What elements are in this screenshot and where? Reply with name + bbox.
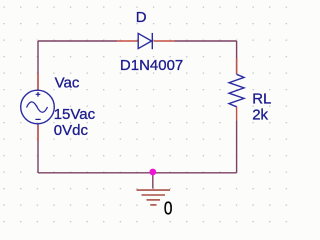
svg-text:D1N4007: D1N4007 [120,57,183,74]
svg-text:15Vac: 15Vac [54,106,96,123]
svg-text:Vac: Vac [55,75,80,92]
ground stub [152,173,154,189]
ground bar 4 [150,204,156,206]
wire left [37,41,39,90]
svg-text:0Vdc: 0Vdc [54,122,89,139]
diode D1 pin right [154,40,175,42]
wire left lower [37,124,39,173]
source Vac pin top [37,74,39,90]
diode D cathode bar [151,33,153,49]
source Vac sine [27,102,48,112]
wire top right [175,40,237,42]
source minus sign [35,118,40,120]
junction dot [149,169,156,176]
resistor RL pin top [236,58,238,74]
svg-text:D: D [136,9,147,26]
diode D1 pin left [117,40,138,42]
wire bottom [38,172,237,174]
svg-text:RL: RL [252,91,271,108]
svg-text:2k: 2k [252,107,268,124]
resistor RL pin bottom [236,107,238,121]
ground bar 1 [137,189,171,191]
ground bar 3 [147,199,161,201]
source Vac circle [21,90,55,124]
wire right lower [236,121,238,173]
wire top [38,40,117,42]
source Vac pin bottom [37,124,39,141]
svg-text:0: 0 [164,198,173,219]
source plus sign [36,92,41,97]
ground bar 2 [142,194,166,196]
diode D triangle [138,33,151,48]
resistor RL zigzag [229,74,244,107]
wire right [236,41,238,74]
